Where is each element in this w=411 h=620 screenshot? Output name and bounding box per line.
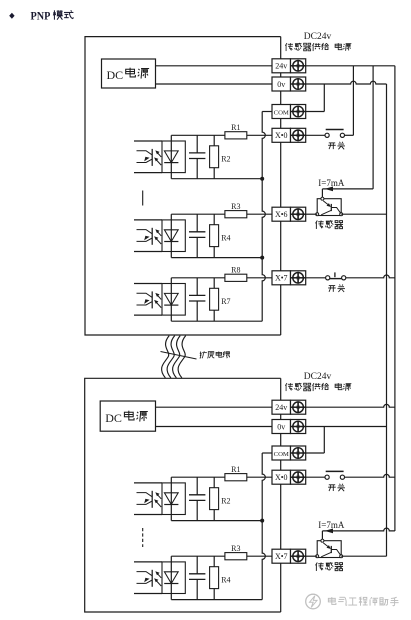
node top sensor 传感器 label 传感器 bbox=[316, 220, 344, 229]
wire bottom 24v from DC bbox=[156, 406, 273, 408]
node opto5 light arrows bbox=[154, 571, 161, 586]
capacitor opto3 bbox=[189, 278, 205, 321]
node junction opto4 return bbox=[260, 519, 264, 523]
wire top 24v rail right bbox=[306, 65, 395, 67]
node title 模式 bbox=[53, 10, 73, 19]
resistor opto5 R3 bbox=[225, 544, 247, 560]
LED opto3 bbox=[164, 293, 178, 305]
node label 扩展电缆 bbox=[200, 351, 230, 358]
wire opto5 left edge bbox=[170, 556, 172, 599]
transistor opto4 phototransistor bbox=[134, 483, 162, 515]
wire bottom 24v rail right bbox=[306, 404, 395, 407]
wire bottom sensor I=7mA feed bbox=[322, 528, 395, 541]
wire opto2 to terminal bbox=[247, 213, 272, 215]
wire opto3 top rail bbox=[171, 277, 225, 279]
terminal top 24v bbox=[272, 59, 306, 73]
node bottom sensor I=7mA label bbox=[318, 520, 345, 530]
svg-text:R4: R4 bbox=[221, 234, 230, 243]
node junction opto2 return bbox=[260, 256, 264, 260]
optocoupler opto1 package box bbox=[162, 141, 185, 173]
svg-text:COM: COM bbox=[274, 451, 289, 458]
svg-text:24v: 24v bbox=[275, 403, 287, 412]
wire top sensor to 0v bbox=[341, 213, 386, 215]
svg-text:R2: R2 bbox=[221, 155, 230, 164]
wire opto5 to terminal bbox=[247, 555, 272, 557]
svg-text:DC: DC bbox=[105, 411, 122, 425]
wire bottom 0v from DC bbox=[156, 426, 273, 428]
terminal bottom COM bbox=[272, 446, 306, 460]
svg-text:24v: 24v bbox=[275, 62, 287, 71]
terminal top X7 bbox=[272, 271, 306, 285]
node bottom DC power box bbox=[100, 401, 155, 431]
wire opto3 bottom rail bbox=[171, 320, 262, 322]
transistor opto2 phototransistor bbox=[134, 220, 162, 252]
wire 0v right vertical bbox=[386, 84, 388, 556]
wire extension cable squiggle bbox=[162, 336, 186, 378]
switch top X0 开关 bbox=[306, 130, 345, 138]
wire bottom X7 to sensor bbox=[306, 555, 318, 557]
terminal top COM bbox=[272, 105, 306, 119]
svg-text:R3: R3 bbox=[231, 544, 240, 553]
wire bottom sensor to 0v bbox=[341, 555, 386, 557]
wire opto3 to terminal bbox=[247, 277, 272, 279]
wire top 0v from DC bbox=[156, 83, 273, 85]
node top DC power label bbox=[107, 68, 150, 83]
terminal top 0v bbox=[272, 77, 306, 91]
node opto4 light arrows bbox=[154, 492, 161, 507]
switch top X7 开关 bbox=[306, 272, 346, 280]
svg-text:0v: 0v bbox=[277, 80, 285, 89]
svg-text:X•0: X•0 bbox=[275, 473, 288, 482]
optocoupler opto5 package box bbox=[162, 562, 185, 594]
wire top X0 switch to 24v bbox=[345, 66, 354, 136]
node top sensor I=7mA label bbox=[318, 178, 345, 188]
node switch label 开关 bbox=[328, 285, 345, 292]
wire top X6 to sensor bbox=[306, 213, 318, 215]
resistor opto3 R7 bbox=[210, 278, 231, 321]
wire opto4 to terminal bbox=[247, 476, 272, 478]
optocoupler opto2 package box bbox=[162, 220, 185, 252]
svg-text:0v: 0v bbox=[277, 422, 285, 431]
node top sensor current arrowhead bbox=[325, 187, 333, 192]
resistor opto4 R1 bbox=[225, 465, 247, 481]
node extension cable tick bbox=[161, 352, 197, 360]
wire opto4 top rail bbox=[171, 476, 225, 478]
wire opto5 bottom rail bbox=[171, 599, 262, 601]
wire 24v right vertical bbox=[394, 66, 396, 531]
node title bullet bbox=[9, 13, 14, 19]
wire opto4 bottom rail bbox=[171, 520, 262, 522]
svg-text:X•6: X•6 bbox=[275, 210, 288, 219]
wire top COM to 0v bbox=[306, 84, 325, 112]
svg-text:I=7mA: I=7mA bbox=[318, 178, 345, 188]
svg-text:X•7: X•7 bbox=[275, 274, 288, 283]
svg-text:R3: R3 bbox=[231, 202, 240, 211]
terminal bottom 0v bbox=[272, 420, 306, 434]
LED opto2 bbox=[164, 230, 178, 242]
wire opto2 bottom rail bbox=[171, 257, 262, 259]
node continuation mark top bbox=[142, 191, 144, 206]
resistor opto1 R1 bbox=[225, 123, 247, 139]
wire top sensor riser bbox=[372, 66, 374, 189]
wire bottom 0v rail right bbox=[306, 426, 387, 428]
capacitor opto1 bbox=[189, 135, 205, 178]
resistor opto2 R4 bbox=[210, 214, 231, 257]
wire bottom X0 switch to 24v bbox=[345, 474, 395, 477]
resistor opto4 R2 bbox=[210, 477, 231, 520]
node bottom sensor 传感器 label 传感器 bbox=[316, 562, 344, 571]
wire bottom COM to 0v bbox=[306, 427, 325, 454]
svg-text:X•0: X•0 bbox=[275, 131, 288, 140]
transistor top sensor 传感器 sensor box bbox=[316, 197, 343, 216]
wire opto1 bottom rail bbox=[171, 178, 262, 180]
terminal bottom X0 bbox=[272, 470, 306, 484]
wire opto1 to terminal bbox=[247, 134, 272, 136]
node top DC24v label bbox=[304, 32, 332, 42]
wire top X7 switch to 24v bbox=[346, 275, 395, 278]
wire opto1 top rail bbox=[171, 134, 225, 136]
node continuation mark bottom bbox=[142, 528, 144, 547]
svg-text:R2: R2 bbox=[221, 497, 230, 506]
transistor opto3 phototransistor bbox=[134, 284, 162, 316]
node bottom sensor current arrowhead bbox=[325, 529, 333, 534]
capacitor opto2 bbox=[189, 214, 205, 257]
node top PLC module box bbox=[85, 37, 281, 335]
wire top 24v from DC bbox=[156, 65, 273, 67]
node watermark logo bbox=[306, 594, 321, 609]
wire opto5 top rail bbox=[171, 555, 225, 557]
wire top 0v return bbox=[262, 112, 272, 322]
wire bottom terminal spine bbox=[280, 378, 282, 612]
node watermark text 电气工程师助手 bbox=[328, 597, 398, 606]
node bottom DC24v label bbox=[304, 372, 332, 382]
node switch label 开关 bbox=[328, 142, 345, 149]
node bottom DC power label bbox=[105, 411, 148, 426]
wire opto4 left edge bbox=[170, 477, 172, 520]
svg-text:R7: R7 bbox=[221, 297, 230, 306]
capacitor opto4 bbox=[189, 477, 205, 520]
node opto2 light arrows bbox=[154, 229, 161, 244]
resistor opto2 R3 bbox=[225, 202, 247, 218]
node junction opto1 return bbox=[260, 177, 264, 181]
svg-text:DC24v: DC24v bbox=[304, 372, 332, 382]
wire top sensor I=7mA feed bbox=[322, 189, 373, 199]
terminal bottom 24v bbox=[272, 400, 306, 414]
transistor opto1 phototransistor bbox=[134, 141, 162, 173]
svg-text:R1: R1 bbox=[231, 123, 240, 132]
wire top terminal spine bbox=[280, 37, 282, 335]
wire opto2 left edge bbox=[170, 214, 172, 257]
svg-text:COM: COM bbox=[274, 109, 289, 116]
node bottom supply label 传感器供给电源 bbox=[285, 383, 351, 391]
terminal top X6 bbox=[272, 207, 306, 221]
resistor opto1 R2 bbox=[210, 135, 231, 178]
wire top 0v rail right bbox=[306, 81, 387, 84]
resistor opto3 R8 bbox=[225, 266, 247, 282]
terminal top X0 bbox=[272, 128, 306, 142]
svg-text:PNP: PNP bbox=[31, 11, 51, 23]
LED opto4 bbox=[164, 493, 178, 505]
svg-text:DC: DC bbox=[107, 68, 124, 82]
svg-text:R4: R4 bbox=[221, 576, 230, 585]
node bottom PLC module box bbox=[85, 378, 281, 612]
wire opto1 left edge bbox=[170, 135, 172, 178]
optocoupler opto3 package box bbox=[162, 284, 185, 316]
wire opto2 top rail bbox=[171, 213, 225, 215]
transistor bottom sensor 传感器 sensor box bbox=[316, 539, 343, 558]
svg-text:R1: R1 bbox=[231, 465, 240, 474]
wire opto3 left edge bbox=[170, 278, 172, 321]
node top supply label 传感器供给电源 bbox=[285, 43, 351, 51]
transistor opto5 phototransistor bbox=[134, 562, 162, 594]
node top DC power box bbox=[102, 59, 156, 88]
capacitor opto5 bbox=[189, 556, 205, 599]
svg-text:R8: R8 bbox=[231, 266, 240, 275]
svg-text:I=7mA: I=7mA bbox=[318, 520, 345, 530]
wire bottom 0v return bbox=[262, 453, 272, 600]
terminal bottom X7 bbox=[272, 549, 306, 563]
switch bottom X0 开关 bbox=[306, 471, 345, 479]
node title PNP bbox=[31, 11, 51, 23]
LED opto5 bbox=[164, 572, 178, 584]
optocoupler opto4 package box bbox=[162, 483, 185, 515]
node opto3 light arrows bbox=[154, 293, 161, 308]
node opto1 light arrows bbox=[154, 150, 161, 165]
svg-text:X•7: X•7 bbox=[275, 552, 288, 561]
LED opto1 bbox=[164, 151, 178, 163]
resistor opto5 R4 bbox=[210, 556, 231, 599]
svg-text:DC24v: DC24v bbox=[304, 32, 332, 42]
node switch label 开关 bbox=[328, 484, 345, 491]
